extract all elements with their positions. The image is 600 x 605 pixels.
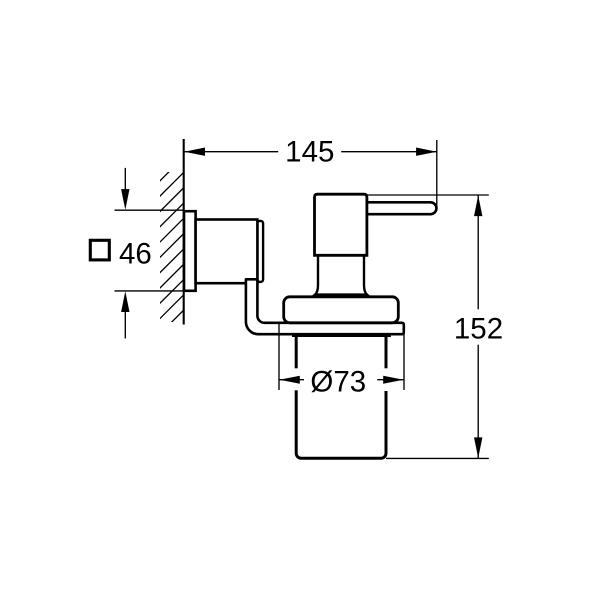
dimension 152 arrows [474,195,482,216]
dimension 145 arrows [184,148,205,156]
glass rim band [292,334,391,337]
svg-text:145: 145 [285,136,334,169]
svg-text:46: 46 [119,237,152,270]
dimension 73 extension lines [279,324,404,390]
flange band [315,295,367,298]
escutcheon plate [184,211,196,291]
dimension 145 line [184,140,436,208]
holder ring [284,297,399,323]
glass cup [296,337,386,459]
pump neck [315,254,367,295]
dimension 46 extension lines [115,168,184,339]
wall hatching [156,157,184,338]
dimension 73 arrows [279,376,300,384]
bracket body [196,220,258,284]
bracket arm (L-shaped) [246,279,404,334]
svg-text:152: 152 [454,313,503,346]
svg-text:Ø73: Ø73 [310,365,366,398]
dimension 145 right extension line [436,140,438,208]
square symbol [90,240,109,260]
dimension 152 extension lines [367,195,489,458]
pump head [315,194,367,255]
glass wall gaps at dimension crossing [292,368,301,390]
pump spout [364,202,436,214]
wall plate strip [257,221,263,282]
wall line [183,139,185,325]
dimension 46 arrows [121,189,129,210]
